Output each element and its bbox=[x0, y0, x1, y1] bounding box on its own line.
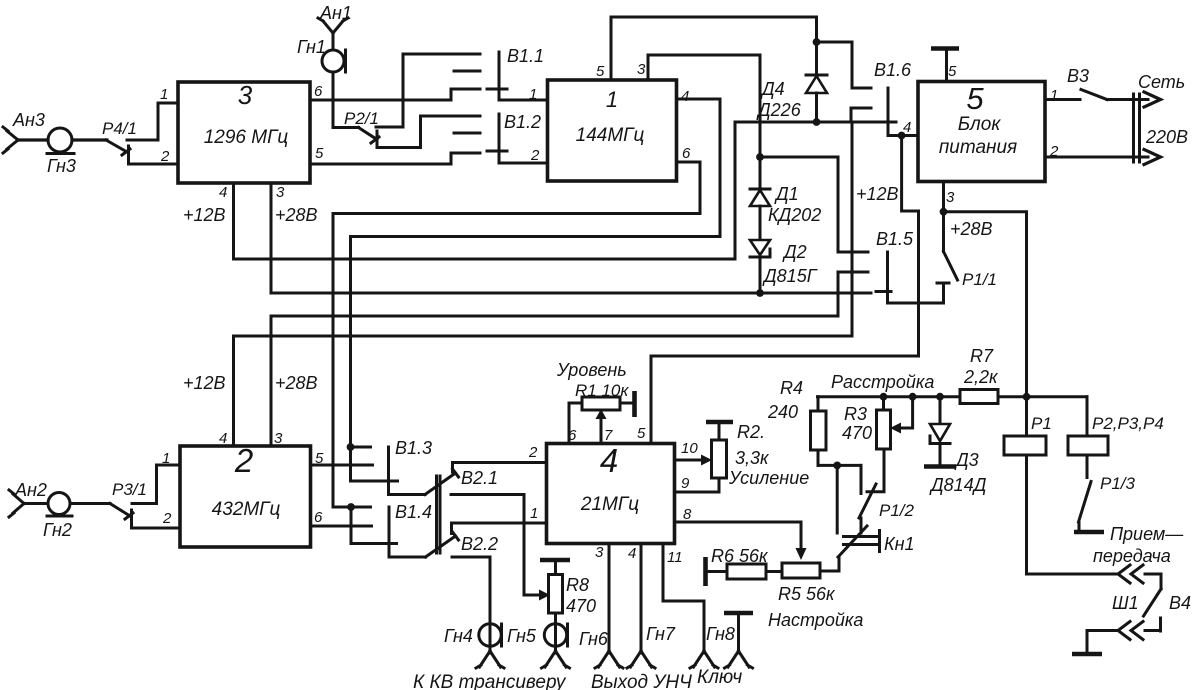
label Vyhod UNCH bbox=[591, 672, 692, 690]
antenna An3 bbox=[3, 110, 45, 153]
svg-text:4: 4 bbox=[681, 88, 689, 105]
wire An2 to P3/1 bbox=[24, 502, 110, 505]
block2 pin4 +12V label bbox=[183, 373, 227, 447]
svg-text:2: 2 bbox=[234, 442, 253, 479]
wire bus C: block3 pin4 +12V to D4 bottom node bbox=[183, 122, 817, 259]
switch section V1.4 bbox=[389, 502, 432, 557]
svg-text:4: 4 bbox=[219, 184, 227, 201]
connector Gn1 bbox=[297, 33, 346, 72]
svg-text:Р4/1: Р4/1 bbox=[102, 119, 137, 138]
wire V1.1 output to block1 pin1 bbox=[499, 86, 548, 103]
svg-text:R4: R4 bbox=[780, 378, 803, 398]
node dot D2 bottom bbox=[756, 289, 764, 297]
svg-text:10: 10 bbox=[681, 440, 698, 457]
wire detune node line bbox=[818, 395, 961, 398]
svg-text:1: 1 bbox=[160, 86, 168, 103]
svg-text:R7: R7 bbox=[970, 346, 994, 366]
svg-text:8: 8 bbox=[683, 506, 692, 523]
svg-text:6: 6 bbox=[568, 427, 577, 444]
resistor R7 2.2k bbox=[960, 346, 1087, 404]
svg-text:Д815Г: Д815Г bbox=[762, 266, 818, 286]
svg-text:1: 1 bbox=[162, 450, 170, 467]
svg-text:5: 5 bbox=[966, 81, 984, 116]
connector Sh1 lower chevrons bbox=[1072, 622, 1161, 655]
trimmer R8 470 bbox=[540, 560, 596, 653]
svg-text:КД202: КД202 bbox=[768, 205, 821, 225]
node dot block5 pin4 bbox=[898, 132, 906, 140]
svg-text:+28В: +28В bbox=[275, 205, 318, 225]
wire bus B: block1 pin4 to V1.3 contacts bbox=[351, 88, 721, 481]
potentiometer R5 56k (Nastroyka) bbox=[766, 563, 863, 630]
wire P4/1 upper contact to block3 pin1 bbox=[127, 86, 178, 140]
block2 pin3 +28V label bbox=[274, 373, 318, 447]
svg-text:В1.4: В1.4 bbox=[395, 502, 432, 522]
connector Gn7 fork bbox=[627, 624, 676, 668]
svg-text:передача: передача bbox=[1093, 546, 1171, 566]
wire block1 pin5 to D4 top node bbox=[596, 17, 817, 80]
mains plug bars bbox=[1134, 94, 1189, 162]
relay contact P1/3 bbox=[1074, 455, 1136, 532]
wire V1.5 middle contact to bus E bbox=[271, 272, 868, 446]
node dot R3 wiper bbox=[909, 393, 917, 401]
wire block4 pin10 arrow to R2 wiper bbox=[675, 440, 713, 466]
wire bus F: V1.6 top node to block2 pin4 bbox=[234, 122, 853, 446]
wire bus A: block1 pin6 to V1.4 contacts bbox=[333, 145, 700, 544]
svg-text:1: 1 bbox=[1050, 87, 1058, 104]
svg-text:В1.1: В1.1 bbox=[507, 46, 544, 66]
svg-text:В4: В4 bbox=[1169, 593, 1191, 613]
svg-text:1296 МГц: 1296 МГц bbox=[204, 127, 289, 148]
block 2 (432 MHz unit) bbox=[180, 442, 311, 547]
svg-text:Настройка: Настройка bbox=[768, 610, 863, 630]
svg-text:3: 3 bbox=[238, 80, 253, 110]
wire V2.1 contact to block4 pin2 bbox=[453, 444, 547, 463]
connector Gn2 bbox=[43, 493, 72, 541]
svg-text:питания: питания bbox=[939, 137, 1017, 158]
svg-text:Гн4: Гн4 bbox=[444, 626, 473, 646]
wire block3 pin5 to V1.2 contact bbox=[310, 145, 480, 164]
node dot R3 top bbox=[880, 393, 888, 401]
relay coils P2,P3,P4 bbox=[1068, 414, 1164, 455]
svg-text:Д226: Д226 bbox=[756, 100, 802, 120]
svg-text:Д1: Д1 bbox=[774, 184, 799, 204]
svg-text:1: 1 bbox=[606, 87, 618, 112]
svg-text:В1.2: В1.2 bbox=[504, 112, 541, 132]
svg-text:3: 3 bbox=[276, 184, 285, 201]
wire block4 pin8 to R5 wiper arrow bbox=[675, 506, 807, 560]
svg-text:5: 5 bbox=[948, 63, 957, 80]
svg-text:В1.3: В1.3 bbox=[395, 438, 432, 458]
switch P2/1 bbox=[344, 109, 379, 148]
svg-text:R5 56к: R5 56к bbox=[778, 584, 836, 604]
block4 pin5 label bbox=[637, 425, 646, 442]
node dot block5 pin3 bbox=[940, 208, 948, 216]
switch V3 bbox=[1067, 66, 1107, 100]
label Rasstroyka bbox=[831, 372, 934, 392]
svg-text:Р2/1: Р2/1 bbox=[344, 109, 379, 128]
wire to relay P2,P3,P4 bbox=[1086, 397, 1089, 436]
svg-text:Ключ: Ключ bbox=[697, 667, 742, 688]
block5 pin5 chassis stub bbox=[931, 49, 959, 82]
svg-text:2: 2 bbox=[162, 510, 172, 527]
wire block4 pin11 to key jack bbox=[663, 544, 704, 654]
svg-text:Р1: Р1 bbox=[1031, 414, 1052, 433]
wire block1 pin3 to D1 bbox=[637, 55, 760, 189]
svg-text:R2.: R2. bbox=[737, 422, 765, 442]
wire block5 pin3 +28V feed bbox=[944, 182, 1027, 437]
svg-text:Р1/3: Р1/3 bbox=[1100, 474, 1136, 493]
label Kluch bbox=[697, 667, 742, 688]
svg-text:3: 3 bbox=[274, 430, 283, 447]
wire block4 pin9 to R2 bottom bbox=[675, 475, 720, 492]
connector Sh1 upper chevrons bbox=[1112, 565, 1161, 613]
svg-text:470: 470 bbox=[842, 423, 872, 443]
svg-text:240: 240 bbox=[767, 402, 798, 422]
relay contact P1/2 bbox=[859, 449, 915, 533]
svg-text:Гн5: Гн5 bbox=[507, 626, 537, 646]
switch V4 bbox=[1144, 574, 1192, 631]
wire block4 pin4 to Gn7 bbox=[628, 544, 641, 654]
wire R3 wiper arrow bbox=[890, 397, 913, 434]
wire P3/1 lower contact to block2 pin2 bbox=[132, 510, 181, 528]
node dot D4 top bbox=[813, 38, 821, 46]
connector Gn6 fork bbox=[579, 629, 623, 668]
wire P4/1 lower contact to block3 pin2 bbox=[129, 148, 179, 165]
wire P2/1 lower contact to V1.2 top contact bbox=[377, 116, 480, 148]
wire +12V from block5 pin4 down to block4 pin5 bbox=[651, 136, 919, 444]
svg-text:4: 4 bbox=[628, 545, 636, 562]
svg-text:3: 3 bbox=[637, 61, 646, 78]
label Priem-peredacha bbox=[1093, 524, 1184, 566]
switch section V1.6 bbox=[874, 60, 912, 136]
svg-text:7: 7 bbox=[604, 427, 613, 444]
wire P1 to Sh1 connector bbox=[1027, 455, 1118, 574]
mechanical link V2.1-V2.2 bbox=[437, 476, 441, 553]
svg-text:4: 4 bbox=[219, 430, 227, 447]
wire V1.6 bar to block5 pin4 bbox=[888, 119, 918, 136]
svg-text:+12В: +12В bbox=[856, 184, 899, 204]
wire block2 pin5 to V1.3 contact2 bbox=[311, 450, 373, 467]
svg-text:5: 5 bbox=[596, 63, 605, 80]
wire bus D: block3 pin3 +28V to D2 node and V1.5 wiper bbox=[271, 183, 891, 293]
wire V3 to mains arrow bbox=[1107, 72, 1185, 107]
svg-text:Прием—: Прием— bbox=[1110, 524, 1184, 544]
svg-text:11: 11 bbox=[667, 549, 683, 566]
svg-text:Д2: Д2 bbox=[782, 242, 807, 262]
svg-text:Ан1: Ан1 bbox=[319, 3, 352, 23]
svg-text:9: 9 bbox=[681, 475, 690, 492]
svg-text:2: 2 bbox=[528, 444, 538, 461]
wire V1.2 output to block1 pin2 bbox=[499, 147, 548, 164]
svg-text:470: 470 bbox=[566, 596, 596, 616]
svg-text:Ан2: Ан2 bbox=[14, 480, 47, 500]
wire block4 pin3 to Gn6 bbox=[595, 544, 609, 654]
relay coil P1 bbox=[1004, 414, 1052, 455]
svg-text:6: 6 bbox=[314, 509, 323, 526]
svg-text:Гн3: Гн3 bbox=[47, 156, 76, 176]
svg-text:Выход УНЧ: Выход УНЧ bbox=[591, 672, 692, 690]
svg-text:+28В: +28В bbox=[275, 373, 318, 393]
svg-text:В1.6: В1.6 bbox=[874, 60, 912, 80]
node dot V1.4 contact1 bbox=[347, 503, 355, 511]
svg-text:Сеть: Сеть bbox=[1138, 72, 1185, 92]
connector Gn3 bbox=[47, 128, 76, 176]
block 4 (21 MHz unit) bbox=[547, 442, 675, 544]
svg-text:Р1/2: Р1/2 bbox=[879, 501, 915, 520]
wire V2.2 lower contact to Gn4 bbox=[452, 557, 490, 653]
node dot +28V rail at R7 bbox=[1023, 393, 1031, 401]
switch section V1.5 bbox=[876, 229, 914, 303]
svg-text:2: 2 bbox=[160, 148, 170, 165]
label K KV transiveru bbox=[413, 672, 567, 690]
svg-text:Гн6: Гн6 bbox=[579, 629, 609, 649]
svg-text:В2.2: В2.2 bbox=[461, 534, 498, 554]
svg-text:+28В: +28В bbox=[950, 219, 993, 239]
svg-text:5: 5 bbox=[637, 425, 646, 442]
chassis bar and resistor R6 56k bbox=[706, 546, 770, 586]
wire V1.5 bar to P1/1 contact bbox=[888, 283, 950, 303]
connector pin11 fork bbox=[690, 651, 718, 668]
diode D2 D815G (zener) bbox=[750, 240, 818, 293]
switch contact V2.2 bbox=[389, 523, 498, 557]
svg-text:3: 3 bbox=[595, 544, 604, 561]
svg-text:5: 5 bbox=[315, 145, 324, 162]
svg-text:Гн2: Гн2 bbox=[43, 520, 72, 540]
svg-text:144МГц: 144МГц bbox=[576, 125, 645, 146]
svg-text:R8: R8 bbox=[566, 575, 589, 595]
wire Gn1 to P2/1 pivot bbox=[333, 72, 359, 128]
svg-text:2: 2 bbox=[530, 147, 540, 164]
svg-text:432МГц: 432МГц bbox=[212, 499, 281, 520]
wire An3 to P4/1 bbox=[18, 138, 107, 141]
svg-text:Кн1: Кн1 bbox=[884, 534, 915, 554]
wire block5 pin2 to mains arrow bbox=[1045, 143, 1161, 165]
potentiometer R1 10k (Uroven) bbox=[556, 360, 635, 444]
svg-text:В2.1: В2.1 bbox=[461, 468, 498, 488]
resistor R4 240 bbox=[767, 378, 826, 465]
node dot D3 top bbox=[936, 393, 944, 401]
svg-text:Д4: Д4 bbox=[760, 79, 785, 99]
svg-text:1: 1 bbox=[529, 86, 537, 103]
svg-text:+12В: +12В bbox=[183, 373, 226, 393]
svg-text:Гн1: Гн1 bbox=[297, 37, 326, 57]
wire block5 pin1 bbox=[1045, 87, 1080, 104]
antenna An2 bbox=[9, 480, 47, 517]
svg-text:Ш1: Ш1 bbox=[1112, 593, 1139, 613]
svg-text:Ан3: Ан3 bbox=[12, 110, 45, 130]
block 3 (1296 MHz unit) bbox=[178, 80, 310, 183]
switch contact V2.1 bbox=[389, 463, 499, 495]
svg-text:1: 1 bbox=[530, 505, 538, 522]
diode D1 KD202 bbox=[750, 184, 821, 240]
node dot V1.3 contact1 bbox=[347, 443, 355, 451]
wire R5 right to Kn1 bbox=[820, 557, 839, 571]
zener D3 D814D bbox=[924, 397, 987, 495]
svg-text:Уровень: Уровень bbox=[556, 360, 627, 380]
svg-text:6: 6 bbox=[682, 145, 691, 162]
block 5 (power supply) bbox=[918, 81, 1045, 182]
wire block4 pin7 wiper arrow to R1 bbox=[596, 409, 614, 444]
svg-text:+12В: +12В bbox=[183, 205, 226, 225]
svg-text:В1.5: В1.5 bbox=[876, 229, 914, 249]
switch section V1.2 bbox=[454, 112, 541, 163]
wire P3/1 upper contact to block2 pin1 bbox=[132, 450, 180, 504]
relay contact P1/1 bbox=[944, 252, 997, 290]
svg-text:Усиление: Усиление bbox=[728, 468, 809, 488]
svg-text:Гн7: Гн7 bbox=[646, 624, 676, 644]
svg-text:К КВ трансиверу: К КВ трансиверу bbox=[413, 672, 567, 690]
wire node to Kn1 upper terminal bbox=[836, 465, 839, 533]
connector Gn5 bbox=[507, 624, 570, 668]
wire D4 node to V1.6 wiper bbox=[817, 108, 897, 122]
svg-text:4: 4 bbox=[600, 442, 618, 479]
switch P4/1 bbox=[102, 119, 137, 164]
wire V2.1 lower contact to R8 wiper bbox=[451, 495, 550, 601]
svg-text:Блок: Блок bbox=[958, 114, 1002, 135]
svg-text:6: 6 bbox=[314, 83, 323, 100]
antenna An1 bbox=[318, 3, 352, 33]
wire block3 pin6 to V1.1 contact bbox=[310, 83, 480, 100]
node dot D4 bottom bbox=[813, 118, 821, 126]
wire R4 bottom rail bbox=[818, 465, 861, 493]
wire D4 node to V1.6 top contact bbox=[817, 42, 872, 88]
switch section V1.3 bbox=[389, 438, 433, 495]
wire V2.2 contact to block4 pin1 bbox=[452, 505, 547, 523]
diode D4 D226 bbox=[756, 42, 827, 122]
svg-text:220В: 220В bbox=[1145, 127, 1188, 147]
svg-text:Р2,Р3,Р4: Р2,Р3,Р4 bbox=[1092, 414, 1164, 433]
push button Kn1 bbox=[838, 526, 915, 557]
svg-text:Расстройка: Расстройка bbox=[831, 372, 934, 392]
connector Gn8 chassis bar and fork bbox=[706, 613, 753, 668]
svg-text:21МГц: 21МГц bbox=[580, 494, 639, 515]
svg-text:Д3: Д3 bbox=[954, 450, 979, 470]
wire P2/1 upper contact to V1.1 top contact bbox=[376, 54, 480, 127]
wire block2 pin6 to V1.4 contact2 bbox=[311, 509, 372, 526]
svg-text:В3: В3 bbox=[1067, 66, 1089, 86]
block 1 (144 MHz unit) bbox=[548, 80, 677, 181]
svg-text:Д814Д: Д814Д bbox=[929, 475, 987, 495]
potentiometer R2 3.3k (Usilenie) bbox=[706, 422, 809, 488]
resistor R3 470 bbox=[842, 397, 891, 449]
wire D1-D2 junction to V1.5 top contact bbox=[760, 157, 868, 252]
svg-text:2,2к: 2,2к bbox=[963, 367, 999, 387]
node dot D1 top bbox=[756, 153, 764, 161]
svg-text:3,3к: 3,3к bbox=[735, 448, 770, 468]
svg-text:Р3/1: Р3/1 bbox=[112, 480, 147, 499]
svg-text:Р1/1: Р1/1 bbox=[962, 270, 997, 289]
connector Gn4 bbox=[444, 624, 504, 668]
svg-text:3: 3 bbox=[946, 189, 955, 206]
node dot R4 bottom rail bbox=[833, 462, 841, 470]
svg-text:R3: R3 bbox=[844, 404, 867, 424]
switch section V1.1 bbox=[454, 46, 544, 100]
svg-text:Гн8: Гн8 bbox=[706, 624, 735, 644]
switch P3/1 bbox=[110, 480, 147, 528]
